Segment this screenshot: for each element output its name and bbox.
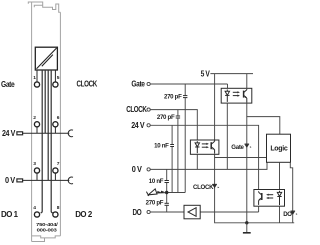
shield collect wire xyxy=(167,192,186,194)
wire to 24V rail xyxy=(44,70,46,133)
clamp 6 xyxy=(53,122,58,127)
signal arrow xyxy=(291,210,296,212)
wire opto1 emitter node xyxy=(247,103,280,134)
label DO signal xyxy=(283,211,297,218)
wire DO row right of driver xyxy=(200,211,258,213)
wire DO row left of driver xyxy=(150,211,184,213)
svg-text:DO: DO xyxy=(133,208,142,217)
svg-text:3: 3 xyxy=(33,161,36,167)
status LED xyxy=(146,189,166,196)
module bottom foot xyxy=(32,238,45,242)
wire to 0V rail xyxy=(47,70,49,180)
wire opto3 emitter to DO line xyxy=(258,206,260,212)
terminal Gate xyxy=(131,80,227,89)
svg-text:CLOCK: CLOCK xyxy=(77,79,98,88)
clamp stems row2 xyxy=(36,127,38,133)
wire bundle xyxy=(41,70,53,213)
clamp 8 xyxy=(53,212,58,217)
Logic block xyxy=(267,134,291,162)
clamp 4 xyxy=(34,212,39,217)
terminal DO xyxy=(133,208,259,217)
ground node xyxy=(245,221,248,224)
clamp 5 xyxy=(53,82,58,87)
clamp 1 xyxy=(34,82,39,87)
clamp 7 xyxy=(53,168,58,173)
module bottom profile xyxy=(32,236,61,238)
svg-text:DO 1: DO 1 xyxy=(1,210,19,219)
clamp 3 xyxy=(34,168,39,173)
LED (right) xyxy=(279,191,281,193)
svg-text:5 V: 5 V xyxy=(201,69,211,78)
module labels xyxy=(1,79,97,233)
module left edge xyxy=(31,2,33,242)
svg-text:0 V: 0 V xyxy=(132,165,143,174)
wire Logic right down to rail xyxy=(290,162,292,223)
wire 5V to opto2 collector xyxy=(214,74,216,140)
wire opto3 LED cathode to rail xyxy=(279,206,281,223)
capacitor 270pF (Gate) xyxy=(164,84,187,193)
svg-text:270 pF: 270 pF xyxy=(164,94,182,101)
wire opto1 cathode to 0V rail xyxy=(226,103,228,169)
svg-text:5: 5 xyxy=(57,75,60,81)
clamp stems row3 xyxy=(36,173,38,180)
terminal CLOCK xyxy=(126,105,197,140)
output driver xyxy=(184,205,200,219)
svg-text:CLOCK: CLOCK xyxy=(126,105,147,114)
capacitor 10nF (24V) xyxy=(154,125,174,192)
capacitor 270pF (DO) xyxy=(146,193,169,213)
clamp stems row1 xyxy=(37,70,55,180)
wire to DO1 clamp xyxy=(41,70,43,213)
signal arrow xyxy=(212,183,217,185)
clamp 2 xyxy=(34,122,39,127)
wire Logic to DO opto LED xyxy=(279,162,281,189)
svg-text:7: 7 xyxy=(57,161,60,167)
terminal 24V xyxy=(131,121,258,190)
isolation box with double diagonal xyxy=(35,47,57,70)
svg-text:DO 2: DO 2 xyxy=(75,210,93,219)
light arrows pointing left xyxy=(268,194,273,196)
svg-text:24 V: 24 V xyxy=(131,121,145,130)
light arrows xyxy=(202,143,207,145)
svg-text:24 V: 24 V xyxy=(2,129,16,138)
capacitor 10nF (0V) xyxy=(149,169,169,192)
optocoupler U3 (DO, mirrored) xyxy=(254,190,285,207)
wire CLOCK row xyxy=(150,110,197,140)
svg-text:8: 8 xyxy=(57,205,60,211)
5V supply xyxy=(201,69,253,140)
svg-text:CLOCK: CLOCK xyxy=(193,184,214,191)
signal arrow xyxy=(245,143,250,145)
wire 5V to opto1 collector xyxy=(246,74,248,89)
terminal 0V xyxy=(132,162,267,174)
svg-text:000-003: 000-003 xyxy=(37,228,58,234)
svg-text:Gate: Gate xyxy=(1,80,15,89)
svg-text:0 V: 0 V xyxy=(5,176,16,185)
optocoupler U2 (CLOCK) xyxy=(190,140,219,154)
wire Gate row xyxy=(150,83,227,85)
wire 5V rail xyxy=(210,73,253,75)
0V field rail with connector symbols xyxy=(17,177,73,184)
module top profile xyxy=(28,2,60,12)
LED xyxy=(226,90,228,92)
24V field rail with connector symbols xyxy=(17,130,73,137)
label Gate signal xyxy=(231,144,251,151)
svg-text:270 pF: 270 pF xyxy=(146,199,164,206)
label CLOCK signal xyxy=(193,184,219,191)
wire Gate signal down xyxy=(246,117,248,223)
junction node xyxy=(165,191,168,194)
clamp numbers xyxy=(33,75,60,211)
module right edge xyxy=(59,12,61,236)
capacitor 270pF (CLOCK) xyxy=(157,110,180,193)
svg-text:2: 2 xyxy=(33,115,36,121)
svg-text:Gate: Gate xyxy=(131,80,145,89)
svg-text:750-404/: 750-404/ xyxy=(36,222,59,228)
wire to DO2 clamp xyxy=(51,70,53,213)
wire opto2 cathode to 0V rail xyxy=(196,154,198,169)
wire gate drop to opto1 xyxy=(227,84,229,88)
wire 0V rail to Logic xyxy=(150,162,267,169)
light arrows xyxy=(233,91,238,93)
phototransistor xyxy=(243,91,245,98)
LED xyxy=(196,141,198,143)
phototransistor xyxy=(210,142,212,149)
clamp circles rows xyxy=(34,82,58,217)
phototransistor (left) xyxy=(261,193,263,200)
svg-text:10 nF: 10 nF xyxy=(149,178,164,185)
svg-text:10 nF: 10 nF xyxy=(154,142,169,149)
wire CLOCK signal down to rail xyxy=(215,158,295,223)
wire 24V row to opto3 collector xyxy=(150,125,258,189)
svg-text:270 pF: 270 pF xyxy=(157,114,175,121)
optocoupler U1 (Gate) xyxy=(221,88,252,103)
svg-text:6: 6 xyxy=(57,115,60,121)
wire opto2 emitter to Logic xyxy=(215,154,267,157)
svg-text:1: 1 xyxy=(33,75,36,81)
svg-text:4: 4 xyxy=(33,205,36,211)
module outline (left drawing) xyxy=(28,2,60,242)
svg-text:Logic: Logic xyxy=(270,146,288,153)
svg-text:Gate: Gate xyxy=(231,144,244,151)
ground symbol xyxy=(243,223,251,233)
